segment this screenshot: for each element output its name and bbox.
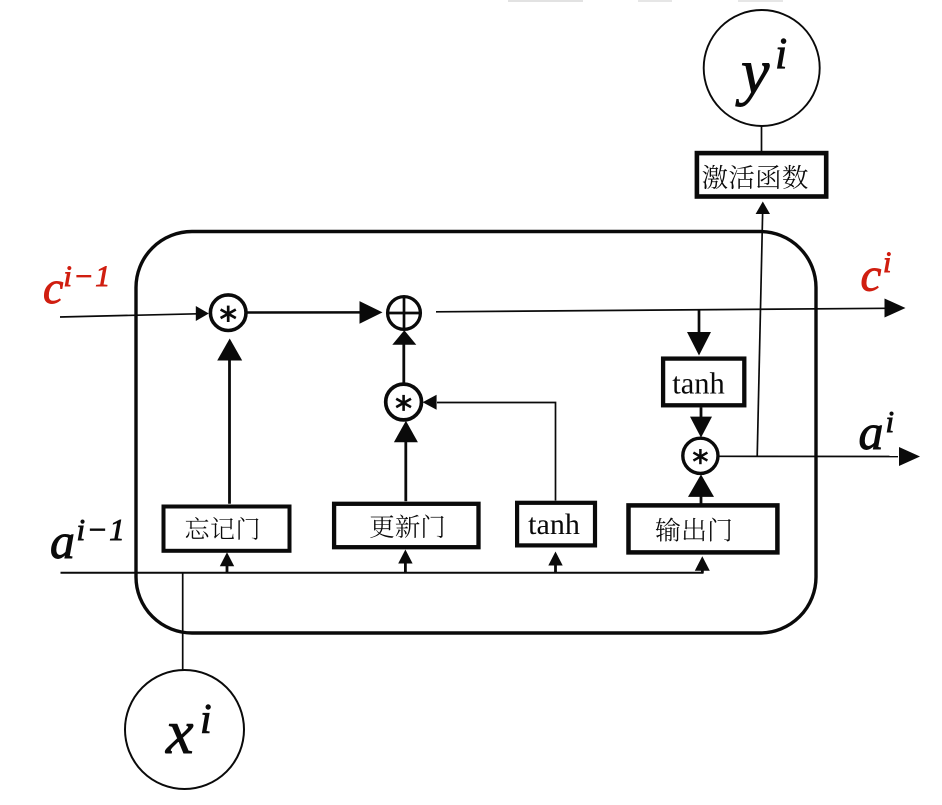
tanh box (output squash) bbox=[663, 359, 744, 406]
faint top-edge artifacts bbox=[508, 0, 583, 2]
svg-text:a: a bbox=[50, 513, 75, 569]
svg-text:i: i bbox=[200, 697, 212, 743]
arrow tanh box to multiply node 3 bbox=[700, 408, 703, 418]
arrowhead into multiply node 1 bbox=[196, 306, 209, 321]
svg-text:c: c bbox=[861, 250, 882, 302]
svg-text:tanh: tanh bbox=[528, 508, 580, 541]
arrowhead into activation box bbox=[756, 202, 770, 215]
svg-text:i−1: i−1 bbox=[77, 512, 127, 547]
arrowhead into multiply node 2 bbox=[423, 395, 437, 410]
arrow multiply node 2 to add node bbox=[402, 344, 405, 384]
arrow output gate to multiply node 3 bbox=[700, 495, 703, 504]
output node y^i circle bbox=[704, 10, 820, 126]
LSTM cell boundary (rounded rectangle) bbox=[136, 232, 816, 634]
arrowhead into add node bbox=[360, 301, 383, 324]
arrow stub into output gate bbox=[701, 568, 704, 573]
svg-text:x: x bbox=[165, 699, 194, 767]
wire c-line down to tanh box bbox=[698, 310, 701, 333]
multiply node 3 (circled asterisk) bbox=[683, 438, 718, 473]
branch wire from a-line up to activation box bbox=[757, 214, 762, 456]
label 输出门 bbox=[656, 518, 731, 542]
arrow stub into forget gate bbox=[226, 565, 229, 573]
arrow stub into candidate tanh bbox=[554, 565, 557, 573]
multiply node 1 (circled asterisk) bbox=[210, 295, 246, 331]
arrow update gate to multiply node 2 bbox=[404, 442, 407, 502]
svg-text:c: c bbox=[43, 262, 63, 313]
wire add node to c^i output bbox=[436, 308, 886, 312]
svg-text:y: y bbox=[735, 36, 770, 107]
svg-text:i: i bbox=[886, 404, 895, 439]
tanh box (candidate squash) bbox=[517, 503, 595, 546]
svg-text:a: a bbox=[859, 404, 884, 460]
arrow stub into update gate bbox=[404, 563, 407, 573]
arrowhead c^i output bbox=[885, 299, 906, 318]
a^(i-1) input line bbox=[61, 570, 703, 573]
label 更新门 bbox=[370, 515, 443, 539]
label 激活函数 bbox=[703, 165, 808, 189]
arrow forget gate to multiply node 1 bbox=[228, 361, 231, 504]
arrowhead into tanh box bbox=[687, 332, 711, 356]
svg-text:i−1: i−1 bbox=[64, 260, 112, 293]
label 忘记门 bbox=[186, 517, 259, 540]
output gate box bbox=[629, 505, 778, 552]
wire candidate tanh to multiply node 2 bbox=[437, 403, 556, 501]
svg-text:i: i bbox=[775, 29, 787, 78]
wire multiply node 3 to a^i output bbox=[718, 455, 898, 457]
svg-text:i: i bbox=[883, 246, 891, 279]
forget gate box bbox=[164, 507, 290, 551]
update gate box bbox=[334, 504, 478, 547]
add node (circled plus) bbox=[388, 297, 421, 330]
wire c^(i-1) into multiply node 1 bbox=[60, 314, 197, 317]
input node x^i circle bbox=[125, 670, 244, 789]
svg-text:tanh: tanh bbox=[672, 367, 725, 401]
wire x^i up to a-line bbox=[182, 572, 184, 670]
multiply node 2 (circled asterisk) bbox=[386, 384, 422, 420]
arrowhead a^i output bbox=[899, 447, 920, 466]
wire multiply node 1 to add node bbox=[248, 311, 362, 314]
activation function box bbox=[697, 153, 826, 196]
wire y^i circle to activation box bbox=[761, 127, 763, 153]
